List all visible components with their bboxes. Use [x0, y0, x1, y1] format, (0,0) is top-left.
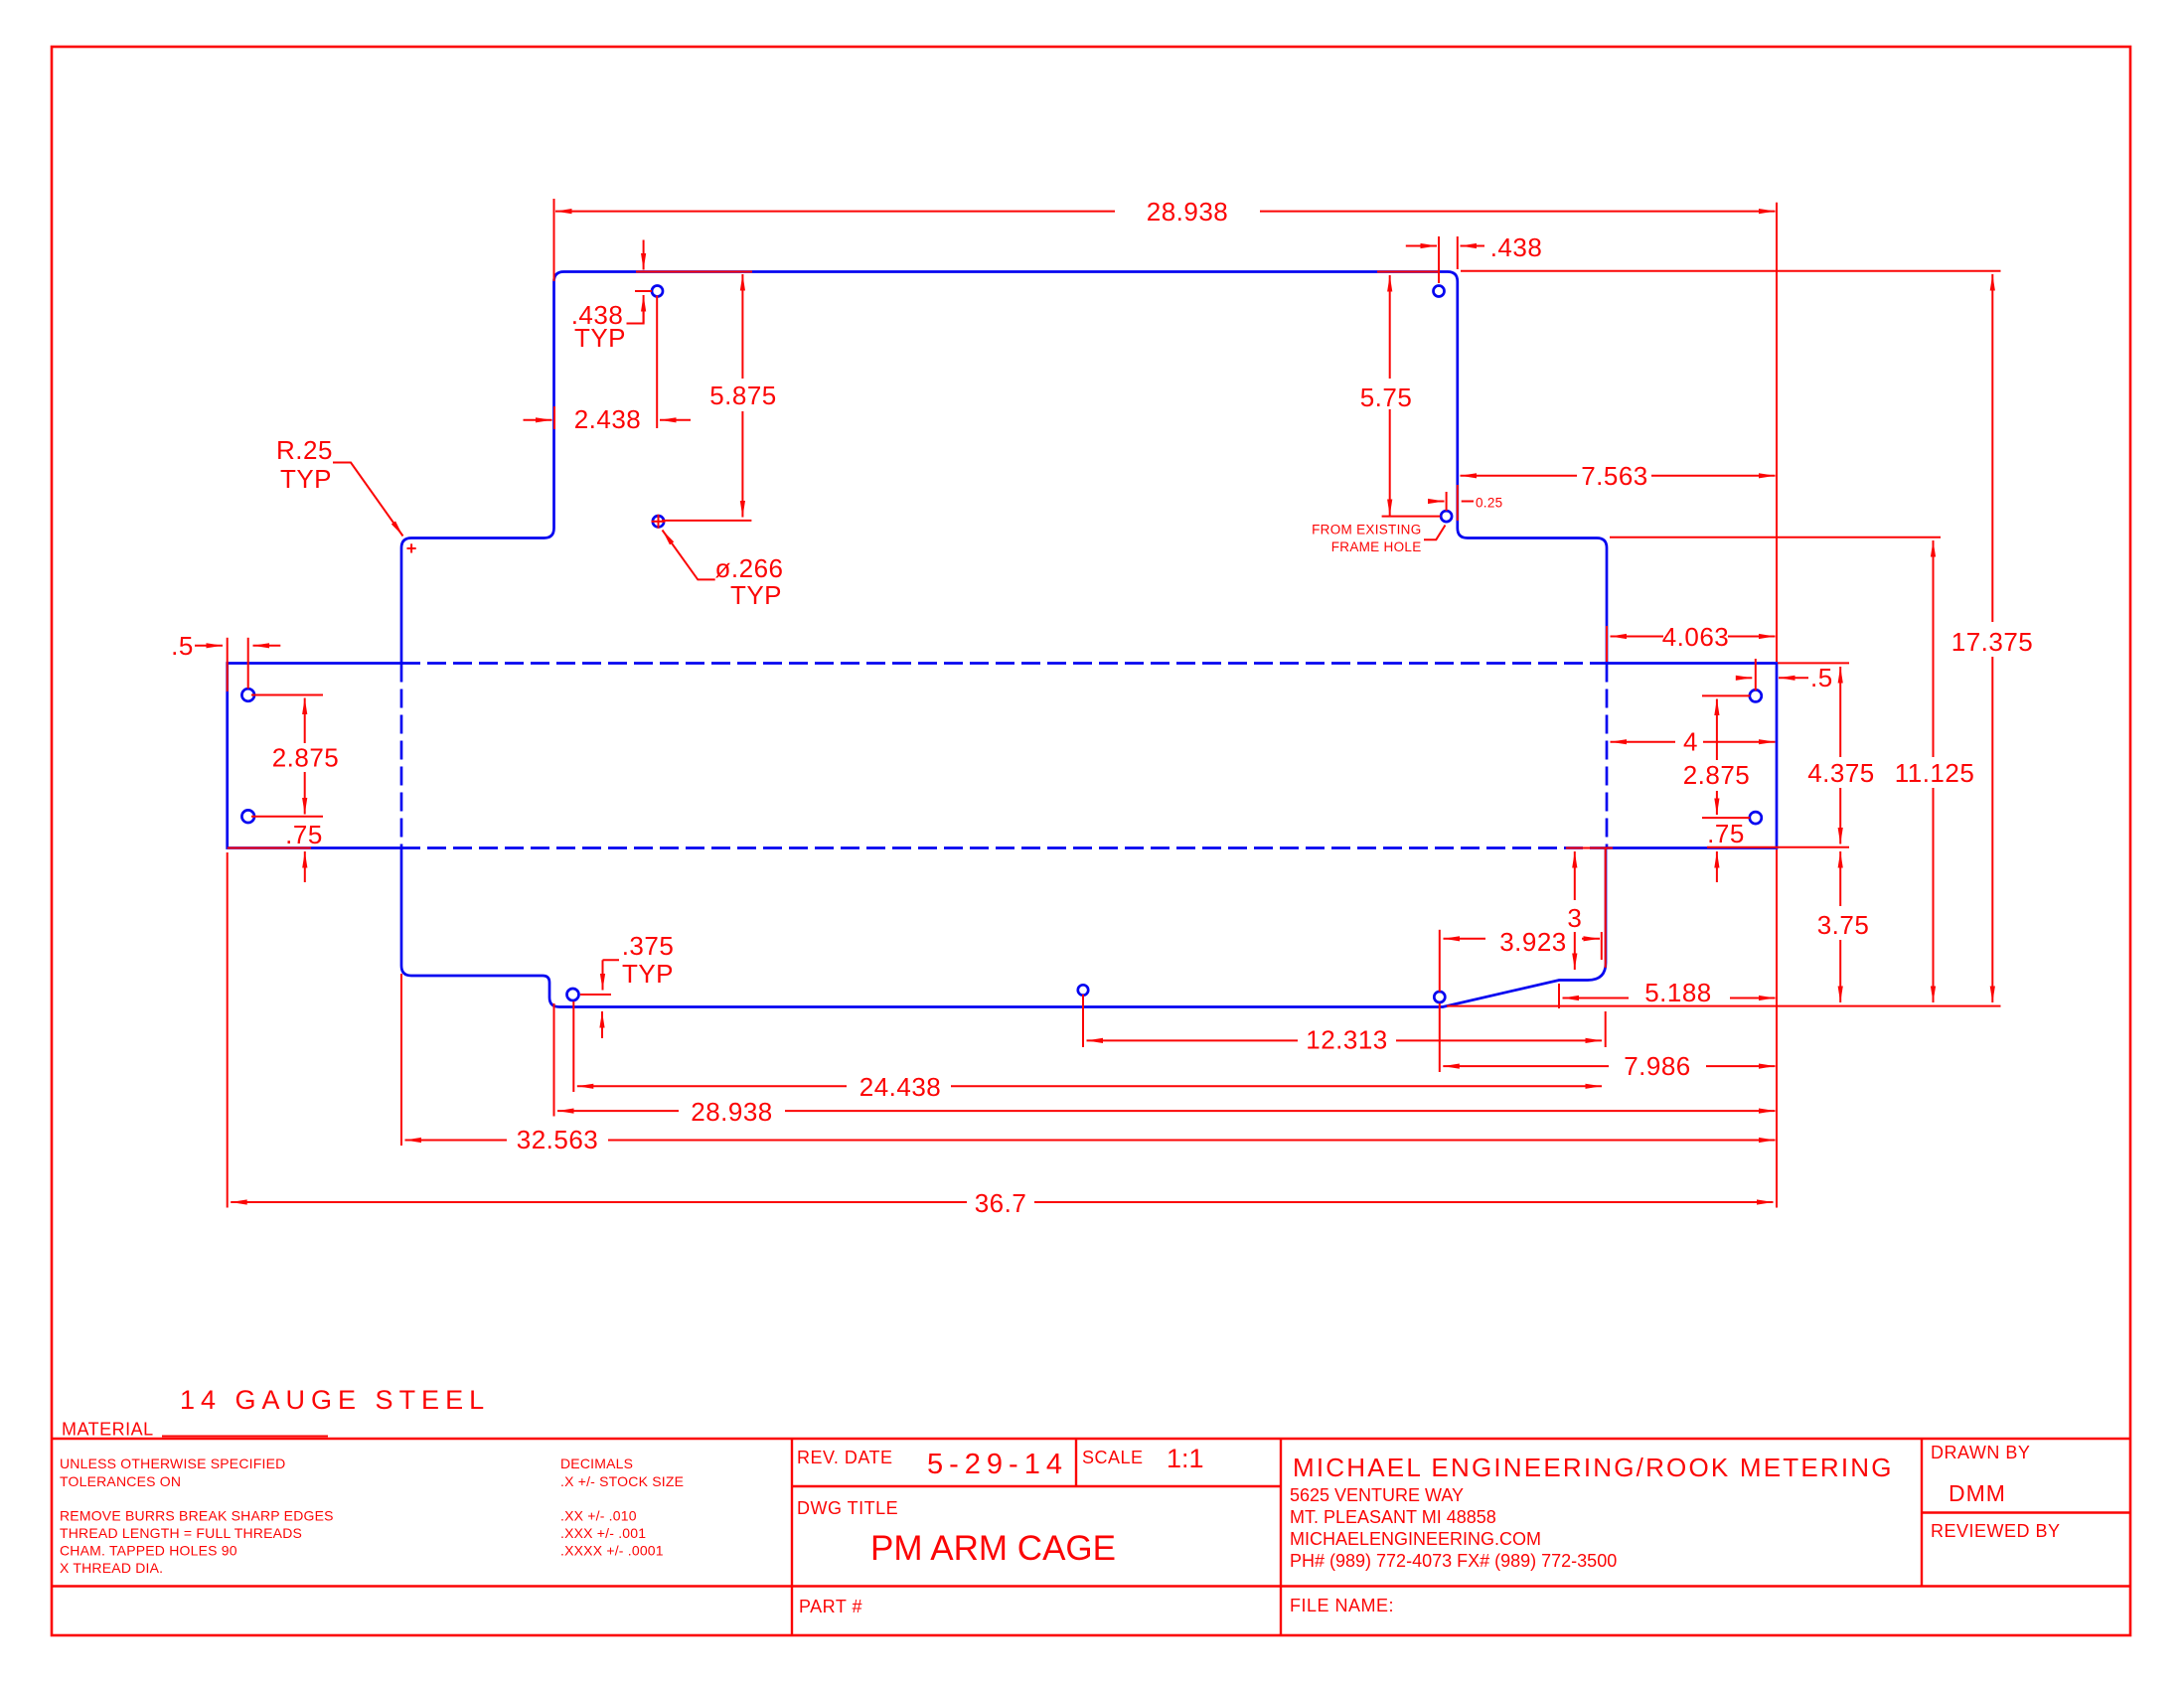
svg-text:PART #: PART #	[799, 1597, 862, 1616]
svg-text:12.313: 12.313	[1306, 1025, 1388, 1055]
svg-text:4: 4	[1683, 727, 1698, 757]
hole crosshair at o.266 hole	[652, 521, 666, 523]
dim 4.375: dimension line	[1839, 667, 1841, 757]
hole: right cap lower	[1750, 812, 1762, 824]
svg-text:7.986: 7.986	[1624, 1051, 1691, 1081]
hole: left cap lower	[241, 810, 254, 823]
svg-text:FROM EXISTING: FROM EXISTING	[1312, 523, 1421, 537]
svg-text:TYP: TYP	[280, 464, 332, 494]
R.25 center mark cross	[407, 547, 416, 549]
svg-text:.5: .5	[171, 631, 194, 661]
dim 2.438: extension from hole	[656, 296, 658, 429]
svg-text:1:1: 1:1	[1167, 1444, 1204, 1473]
svg-text:5-29-14: 5-29-14	[927, 1449, 1068, 1480]
dim 32.563: dimension line	[405, 1140, 508, 1142]
dim .75 left: below-edge arrow	[304, 851, 306, 882]
dim 3.923: extensions	[1439, 930, 1441, 992]
bend line: left vertical (dashed)	[400, 664, 403, 848]
title block: vertical divider company/drawnby	[1921, 1439, 1923, 1588]
part outline: right end cap of main band	[1607, 664, 1777, 848]
part outline: top tab (solid blue)	[401, 272, 1607, 664]
dim .75 right: below-edge arrow	[1716, 851, 1718, 882]
svg-text:.438: .438	[1490, 232, 1543, 262]
title block: line above part#/filename row	[52, 1585, 2130, 1587]
svg-text:24.438: 24.438	[859, 1072, 942, 1102]
dim 2.438: edge tick	[553, 406, 555, 429]
dim 12.313: extension	[1082, 995, 1084, 1047]
svg-text:X THREAD DIA.: X THREAD DIA.	[60, 1560, 163, 1576]
svg-text:DWG TITLE: DWG TITLE	[797, 1498, 898, 1518]
dim 7.986: extension	[1439, 1003, 1441, 1072]
svg-text:THREAD LENGTH = FULL THREADS: THREAD LENGTH = FULL THREADS	[60, 1525, 302, 1541]
dim .375 typ: hole extension	[580, 994, 611, 996]
svg-text:.75: .75	[1707, 819, 1745, 848]
svg-text:R.25: R.25	[276, 435, 333, 465]
hole: top tab upper-right	[1434, 286, 1445, 297]
dim 28.938 bottom: dimension line	[557, 1110, 679, 1112]
dim .75 left: dim line on edge	[228, 847, 311, 849]
bend line: right vertical (dashed)	[1606, 664, 1609, 848]
hole: left cap upper	[241, 689, 254, 701]
title block: line under rev-date row	[792, 1485, 1281, 1487]
svg-text:28.938: 28.938	[1147, 197, 1229, 227]
svg-text:MT. PLEASANT MI 48858: MT. PLEASANT MI 48858	[1290, 1507, 1496, 1527]
svg-text:36.7: 36.7	[975, 1188, 1027, 1218]
dim o.266 typ: leader	[663, 531, 715, 580]
dim 12.313: dimension line	[1087, 1039, 1299, 1041]
svg-text:2.875: 2.875	[272, 743, 340, 773]
svg-text:DMM: DMM	[1949, 1480, 2006, 1506]
dim 2.438: arrows	[524, 419, 552, 421]
dim 4.063 top right: extension	[1606, 626, 1608, 662]
part outline: bottom flange (solid blue)	[401, 848, 1606, 1007]
dim 4.063 top right: dimension line	[1611, 636, 1664, 638]
hole: bottom flange right	[1434, 992, 1445, 1002]
dim 11.125: extension	[1610, 537, 1941, 538]
hole: top tab lower-left (o.266 typ)	[653, 516, 664, 527]
svg-text:5.875: 5.875	[709, 381, 777, 410]
svg-text:.XXX +/- .001: .XXX +/- .001	[560, 1525, 646, 1541]
svg-text:PM ARM CAGE: PM ARM CAGE	[870, 1529, 1116, 1568]
dim 36.7: extensions	[227, 852, 229, 1208]
svg-text:5.188: 5.188	[1644, 978, 1712, 1007]
svg-text:4.375: 4.375	[1807, 758, 1875, 788]
dim 28.938 bottom: extension	[553, 1003, 555, 1117]
dim 5.875: dimension line	[741, 274, 743, 379]
svg-text:3.75: 3.75	[1817, 910, 1870, 940]
note FROM EXISTING FRAME HOLE: leader	[1424, 526, 1446, 540]
svg-text:CHAM. TAPPED HOLES 90: CHAM. TAPPED HOLES 90	[60, 1543, 237, 1559]
svg-text:.375: .375	[622, 931, 675, 961]
bend line: top (dashed)	[401, 662, 1607, 665]
dim .5 left: extensions	[247, 638, 249, 689]
svg-text:2.875: 2.875	[1683, 760, 1751, 790]
dim 2.875 left: extensions	[251, 694, 323, 696]
note 0.25: tick, arrow, text	[1446, 492, 1448, 511]
svg-text:3.923: 3.923	[1499, 927, 1567, 957]
svg-text:MICHAELENGINEERING.COM: MICHAELENGINEERING.COM	[1290, 1529, 1541, 1549]
title block: top line	[52, 1438, 2130, 1440]
svg-text:5.75: 5.75	[1360, 383, 1413, 412]
part outline: left end cap of main band	[228, 664, 401, 848]
dim 4 right: dimension line	[1611, 741, 1676, 743]
svg-text:REV. DATE: REV. DATE	[797, 1448, 893, 1467]
dim 24.438: extension	[572, 1001, 574, 1092]
dim .438 typ left: hole extension	[635, 290, 652, 292]
svg-text:5625 VENTURE WAY: 5625 VENTURE WAY	[1290, 1485, 1464, 1505]
dim .438 right: extensions	[1438, 236, 1440, 283]
hole: existing frame hole	[1441, 511, 1452, 522]
title block: vertical divider notes/rev	[791, 1439, 793, 1635]
svg-text:REMOVE BURRS BREAK SHARP EDGES: REMOVE BURRS BREAK SHARP EDGES	[60, 1508, 334, 1524]
dim 17.375: extensions	[1461, 270, 2001, 272]
svg-text:.XX +/- .010: .XX +/- .010	[560, 1508, 637, 1524]
dim 7.563: dimension line	[1461, 475, 1578, 477]
dim .438 right: arrows	[1406, 245, 1437, 247]
svg-text:TYP: TYP	[622, 959, 674, 989]
svg-text:TYP: TYP	[730, 580, 782, 610]
svg-text:4.063: 4.063	[1662, 622, 1730, 652]
svg-text:0.25: 0.25	[1476, 496, 1502, 511]
svg-text:MICHAEL ENGINEERING/ROOK METER: MICHAEL ENGINEERING/ROOK METERING	[1293, 1453, 1894, 1482]
dim 5.75: extensions	[1382, 516, 1441, 518]
dim 3.75: dimension line	[1839, 851, 1841, 906]
dim 28.938 top: dimension line	[555, 211, 1115, 213]
svg-text:11.125: 11.125	[1895, 758, 1975, 788]
dim 2.875 right: dimension line	[1716, 699, 1718, 761]
dim 7.986: dimension line	[1443, 1065, 1609, 1067]
svg-text:.XXXX +/- .0001: .XXXX +/- .0001	[560, 1543, 664, 1559]
svg-text:FRAME HOLE: FRAME HOLE	[1331, 539, 1422, 554]
title block: line under drawn-by	[1922, 1511, 2130, 1513]
dim .375 typ: bracket and arrows	[603, 959, 620, 961]
svg-text:2.438: 2.438	[574, 404, 642, 434]
dim 2.875 right: extensions	[1702, 694, 1750, 696]
dim 3.923: arrows	[1444, 938, 1486, 940]
svg-text:.X +/- STOCK SIZE: .X +/- STOCK SIZE	[560, 1473, 684, 1489]
dim 4.375: extensions	[1778, 662, 1849, 664]
hole: top tab upper-left	[652, 286, 663, 297]
svg-text:PH# (989) 772-4073 FX# (989) 7: PH# (989) 772-4073 FX# (989) 772-3500	[1290, 1551, 1617, 1571]
dim 36.7: dimension line	[231, 1201, 967, 1203]
dim 5.875: extensions	[662, 520, 751, 522]
svg-text:MATERIAL: MATERIAL	[62, 1420, 154, 1440]
dim 3: extension	[1566, 847, 1613, 849]
svg-text:3: 3	[1567, 903, 1582, 933]
dim .5 right: extension	[1755, 659, 1757, 690]
svg-text:17.375: 17.375	[1951, 627, 2034, 657]
dim .438 typ left: bracket and arrows	[627, 308, 644, 324]
dim 24.438: dimension line	[577, 1085, 847, 1087]
svg-text:TYP: TYP	[574, 323, 626, 353]
svg-text:REVIEWED BY: REVIEWED BY	[1931, 1521, 2061, 1541]
title block: vertical divider scale/company	[1280, 1439, 1282, 1635]
hole: bottom flange left	[567, 989, 579, 1000]
svg-text:.75: .75	[285, 820, 323, 849]
svg-text:ø.266: ø.266	[715, 553, 784, 583]
dim 17.375: dimension line	[1991, 274, 1993, 622]
svg-text:TOLERANCES ON: TOLERANCES ON	[60, 1473, 181, 1489]
title block: vertical divider rev/scale	[1075, 1439, 1077, 1486]
dim 3: dimension line	[1574, 851, 1576, 900]
dim .5 right: arrows	[1779, 677, 1808, 679]
svg-text:.5: .5	[1810, 663, 1833, 692]
svg-text:DRAWN BY: DRAWN BY	[1931, 1443, 2030, 1462]
dim .5 left: arrows	[195, 645, 223, 647]
svg-text:28.938: 28.938	[691, 1097, 773, 1127]
svg-text:SCALE: SCALE	[1082, 1448, 1144, 1467]
dim 32.563: extension	[400, 974, 402, 1146]
note R.25 TYP: leader	[333, 463, 403, 537]
hole: right cap upper	[1750, 690, 1762, 701]
svg-text:32.563: 32.563	[517, 1125, 599, 1154]
dim 2.875 left: dimension line	[304, 698, 306, 744]
svg-text:UNLESS OTHERWISE SPECIFIED: UNLESS OTHERWISE SPECIFIED	[60, 1456, 285, 1471]
dim 5.75: dimension line	[1389, 275, 1391, 379]
dim 28.938 top: extension line left	[553, 199, 555, 281]
dim 11.125: dimension line	[1933, 540, 1935, 757]
svg-text:7.563: 7.563	[1581, 461, 1648, 491]
dim 5.188: arrows	[1563, 997, 1630, 999]
svg-text:FILE NAME:: FILE NAME:	[1290, 1596, 1394, 1615]
hole: bottom flange middle	[1078, 985, 1088, 995]
svg-text:14 GAUGE STEEL: 14 GAUGE STEEL	[180, 1385, 490, 1415]
dim 5.188: extension	[1558, 984, 1560, 1008]
svg-text:DECIMALS: DECIMALS	[560, 1456, 633, 1471]
bend line: bottom (dashed)	[401, 846, 1607, 849]
